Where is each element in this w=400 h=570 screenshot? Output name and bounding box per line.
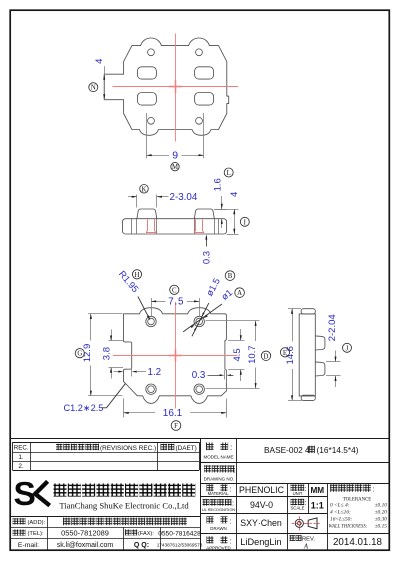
svg-text:WALL THICKNESS:: WALL THICKNESS: [329,525,368,530]
dimension 14.6 (overall height) [288,308,301,310]
address col line mid [123,527,125,550]
dimension 2-2.04 (boss height) [326,361,341,363]
svg-text:Q Q:: Q Q: [134,542,149,549]
top view vertical centerline [175,34,177,142]
title block value column line [287,483,289,550]
drawn label (CJK) 制 图: [207,516,214,523]
front view center mark [175,349,177,362]
tolerance title (CJK) 未标注公差: [330,484,338,492]
balloon N [89,83,98,92]
address table line top [10,516,201,518]
svg-text:UNIT: UNIT [293,491,303,496]
svg-text::: : [230,536,232,545]
top view slot bottom-right [195,93,214,106]
top view slot top-left [137,67,156,79]
title block left/right divider [200,438,202,550]
title block row line drawn/approved [201,533,390,535]
phone row (CJK) 电话(TEL): [13,529,19,535]
svg-text:MM: MM [310,486,324,495]
approved label (CJK) 审 核: [207,536,214,543]
dimension 4.5 (notch to notch) [228,340,245,342]
right view lower boss [315,362,325,376]
svg-text::: : [305,500,307,507]
svg-text:UL RECOGNITION: UL RECOGNITION [202,507,236,512]
balloon F [171,421,181,431]
dimension 10.7 (hole row pitch) [206,320,260,322]
fire label (CJK) 防火等级: [203,499,210,506]
revisions table box [13,442,200,444]
top view hole bottom-left [148,117,155,124]
rev label (CJK) 版本REV. [290,535,296,541]
svg-text:0550-7812089: 0550-7812089 [61,529,109,538]
svg-text:E-mail:: E-mail: [18,542,39,549]
svg-text:G: G [77,351,82,358]
svg-text:C: C [172,287,177,294]
top view horizontal centerline [113,86,239,88]
front view hole top-left (concentric) [146,316,156,326]
svg-text:(TEL):: (TEL): [28,531,44,537]
svg-text:±0.30: ±0.30 [375,517,388,523]
address value (CJK) 安徽省天长市秦栏镇第一工业园区 [63,518,71,526]
dimension 16.1 (overall width) [123,399,125,418]
title block row line model/drawing-no [201,462,390,464]
svg-text:1:1: 1:1 [311,500,324,510]
svg-text:4: 4 [94,59,105,64]
svg-text:TianChang ShuKe Electronic Co.: TianChang ShuKe Electronic Co.,Ltd [59,500,189,510]
dimension 0.3 (hole chamfer) [206,236,208,247]
svg-text:9: 9 [172,150,178,162]
svg-text:94V-0: 94V-0 [250,500,273,510]
svg-text:E: E [283,350,287,357]
svg-text:REC.: REC. [14,445,29,452]
top view slot top-right [195,67,214,79]
svg-text:PHENOLIC: PHENOLIC [239,485,285,495]
right view body [299,314,315,396]
title block label column line [236,438,238,550]
front view hole bottom-right (concentric) [194,384,204,394]
svg-text:J: J [346,345,349,352]
svg-text:D: D [264,353,269,360]
svg-text:4 <L≤16:: 4 <L≤16: [330,510,351,516]
dimension 9 (slot pitch) [146,113,148,158]
svg-text::: : [230,484,232,493]
svg-text:174387612/53069578: 174387612/53069578 [157,542,203,547]
leader R1.95 (ear radius) [138,297,150,320]
drawing-no label (CJK) 产品编号: [204,465,211,472]
title block tolerance column line [327,483,329,550]
scale label (CJK) 比例: [291,499,298,506]
unit label (CJK) 单位: [291,484,298,491]
svg-text:2014.01.18: 2014.01.18 [333,537,383,548]
balloon G [75,349,84,358]
revisions header text (CJK) 版本变更记录 [56,444,63,451]
svg-text:K: K [142,186,147,193]
top view center mark [175,80,177,93]
svg-text:N: N [91,85,96,92]
svg-text:1.6: 1.6 [213,178,224,191]
svg-text:(DAET): (DAET) [176,445,197,452]
svg-text::: : [230,516,232,525]
svg-text:16.1: 16.1 [163,408,183,419]
svg-text:H: H [135,272,140,279]
revisions header line [13,452,200,454]
svg-text:APPROVED: APPROVED [206,545,230,550]
svg-text:2-2.04: 2-2.04 [327,314,338,341]
svg-text:12.9: 12.9 [82,344,93,363]
svg-text:7.5: 7.5 [168,296,184,307]
svg-text:2-3.04: 2-3.04 [170,192,198,203]
svg-text:S: S [14,476,36,513]
projection symbol circle target [295,519,303,527]
svg-text:(ADD):: (ADD): [28,520,46,526]
front view vertical centerline [175,302,177,409]
svg-text:DRAWING NO.: DRAWING NO. [204,477,235,482]
svg-text::: : [305,486,307,493]
dimension 1.2 (notch depth) [114,371,120,373]
right view bottom cap [301,395,315,400]
address row (CJK) 地址(ADD): [13,518,19,524]
svg-text:1.2: 1.2 [148,367,162,378]
address col line fax [160,527,162,550]
balloon M [171,162,179,170]
svg-text:±0.15: ±0.15 [375,524,388,530]
address table line 3 [10,538,201,540]
svg-text:MODEL NAME: MODEL NAME [203,454,233,459]
title block row line drawing-no/material [201,483,390,485]
top view hole top-right [196,49,203,56]
svg-text:0 <L≤ 4:: 0 <L≤ 4: [330,503,350,509]
title block row line fire/drawn [201,513,327,515]
side view left boss [137,209,157,219]
leader dia1.5 (outer hole) [192,303,209,336]
svg-text:A: A [303,543,309,550]
svg-text:B: B [228,273,233,280]
side view segment lines [131,219,133,234]
balloon K [140,185,149,194]
svg-text:F: F [174,423,178,430]
front view outline [124,308,227,404]
svg-text:BASE-002 4: BASE-002 4 [264,445,310,455]
svg-text:10.7: 10.7 [247,345,258,364]
drawing frame border [10,10,389,350]
top view hole top-left [148,49,155,56]
revisions header date (CJK) 日期 [161,444,168,451]
balloon D [261,351,270,360]
projection symbol cone [308,518,317,529]
balloon L [224,168,233,177]
side view bar outline [123,219,227,234]
dimension 3.8 (side notch height) [109,340,124,342]
balloon H [132,270,141,279]
address table line 2 [10,527,201,529]
dimension 2-3.04 (boss width) [136,195,138,208]
title block unit column line [308,483,310,513]
dimension 12.9 (body height) [88,313,123,315]
side view hidden hole left (red) [147,219,149,230]
svg-text:LiDengLin: LiDengLin [240,537,281,547]
fax label (CJK) 传真(FAX): [125,529,131,535]
svg-text:SXY·Chen: SXY·Chen [240,518,282,528]
svg-text:C1.2∗2.5: C1.2∗2.5 [64,403,104,413]
dimension 4 (total height) [214,209,238,211]
dimension 4 (tab height) [104,66,106,100]
title block top line [10,438,390,440]
dimension 1.6 (boss height) [214,209,226,211]
svg-text:0550-7816428: 0550-7816428 [158,530,201,537]
top view hole bottom-right [196,117,203,124]
svg-text:sk.li@foxmail.com: sk.li@foxmail.com [57,542,114,549]
address col line labels [47,516,49,550]
svg-text:(REVISIONS REC.): (REVISIONS REC.) [100,445,156,452]
revisions col line rec [30,442,32,470]
revisions col line date [157,442,159,470]
right view top cap [301,309,315,314]
svg-text:2.: 2. [18,463,24,470]
svg-text:MATERIAL.: MATERIAL. [208,491,230,496]
balloon C [170,285,179,294]
svg-text::: : [234,466,236,475]
material label (CJK) 材 质: [207,484,214,491]
svg-text:(FAX):: (FAX): [138,531,154,537]
balloon J [343,343,352,352]
front view hole top-right (concentric) [194,316,204,326]
svg-text:4: 4 [229,192,240,197]
company name (CJK) 天长市树科电子有限公司 [54,484,67,497]
balloon B [225,271,235,281]
svg-text:A: A [237,290,242,297]
balloon A [235,288,245,298]
balloon E [280,348,289,357]
right view upper boss [315,336,325,350]
balloon I [240,217,249,226]
svg-text:(16*14.5*4): (16*14.5*4) [317,445,359,455]
svg-text:DRAWN: DRAWN [210,526,226,531]
top view outline (plan of base) [104,38,229,135]
svg-text::: : [230,443,232,452]
svg-text:±0.10: ±0.10 [375,503,388,509]
side view hidden hole right (red) [195,219,197,230]
svg-text::: : [373,485,375,494]
title block row line material/fire [201,496,327,498]
front view hole bottom-left (concentric) [146,384,156,394]
svg-text:SCALE: SCALE [291,506,305,511]
leader dia1 (inner hole) [183,304,222,332]
svg-text:0.3: 0.3 [192,370,206,381]
svg-text:0.3: 0.3 [202,251,213,264]
svg-text:4.5: 4.5 [232,348,243,361]
top view slot bottom-left [137,93,156,106]
svg-text:L: L [227,170,231,177]
svg-text:REV.: REV. [302,537,315,543]
side view right boss [194,209,214,219]
svg-text:1.: 1. [18,454,24,461]
dimension 7.5 (hole pitch) [151,298,153,317]
svg-text:3.8: 3.8 [102,347,113,360]
svg-text:±0.20: ±0.20 [375,510,388,516]
revisions row1 line [13,461,200,463]
model label (CJK) 型 号: [206,443,214,451]
svg-text:16<L≤50:: 16<L≤50: [330,517,352,523]
svg-text:M: M [172,164,178,171]
front view horizontal centerline [113,355,238,357]
